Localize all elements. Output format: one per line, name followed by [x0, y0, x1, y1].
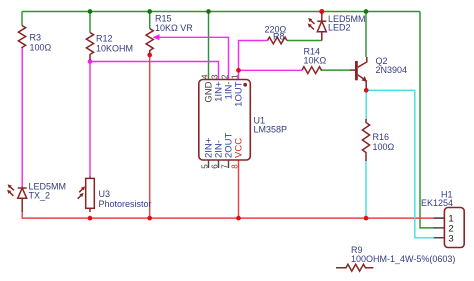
node R15 bottom — [147, 53, 152, 58]
photoresistor U3 — [78, 177, 95, 213]
resistor R12 — [86, 33, 93, 61]
node bus R16 — [364, 216, 369, 221]
svg-text:LED2: LED2 — [328, 23, 351, 33]
wire R3 to TX_2 — [21, 48, 23, 188]
svg-text:Photoresistor: Photoresistor — [99, 199, 152, 209]
transistor Q2 — [350, 57, 367, 89]
wire Q2 collector drop — [365, 12, 367, 58]
node bus VCC pin8 — [236, 216, 241, 221]
trimmer R15 — [146, 29, 153, 55]
node R15 top bus junction — [147, 9, 152, 14]
node R12 top bus junction — [88, 9, 93, 14]
svg-text:8: 8 — [230, 164, 239, 169]
wire U1 pin4 GND drop — [208, 12, 210, 80]
wire bottom bus — [22, 212, 444, 219]
op-amp U1 body — [199, 80, 251, 161]
wire H1 pin2 branch — [420, 12, 435, 228]
wire U1 pin1 to R14 left — [239, 69, 303, 71]
svg-text:10KOHM: 10KOHM — [96, 44, 133, 54]
svg-text:5: 5 — [200, 164, 209, 169]
wire R12 node to U1 pin3 — [90, 62, 219, 80]
svg-text:2N3904: 2N3904 — [376, 65, 408, 75]
resistor R9 — [336, 264, 373, 271]
wire Q2 emitter to H1 pin3 — [366, 90, 435, 238]
wire U1 pin1 stub — [238, 70, 240, 79]
svg-text:U3: U3 — [99, 189, 111, 199]
wire R16 bottom to bus — [365, 161, 367, 219]
svg-text:LM358P: LM358P — [254, 124, 288, 134]
svg-text:R3: R3 — [30, 33, 42, 43]
svg-text:6: 6 — [210, 164, 219, 169]
connector H1 body — [444, 208, 464, 248]
node R12 U3 junction — [88, 59, 93, 64]
svg-text:4: 4 — [200, 74, 209, 79]
wire VCC top bus — [22, 11, 420, 13]
wire U1 pin1 to R8 left — [239, 41, 268, 71]
node U1 pin1 junction — [236, 68, 241, 73]
svg-text:EK1254: EK1254 — [421, 198, 453, 208]
wire R15 top lead — [149, 12, 151, 29]
connector H1 pins — [434, 218, 445, 238]
wire U1 pin8 VCC drop — [238, 160, 240, 218]
wire R14 right to Q2 base — [321, 69, 351, 71]
svg-text:100Ω: 100Ω — [373, 142, 395, 152]
svg-text:VCC: VCC — [234, 138, 245, 158]
wire R15 wiper to U1 pin2 — [157, 37, 229, 79]
resistor R8 — [268, 37, 287, 44]
U1 pins 5 6 7 stubs — [209, 160, 229, 168]
node LED2 bus junction — [319, 9, 324, 14]
svg-text:1: 1 — [230, 74, 239, 79]
U1 pin1 mark — [243, 83, 247, 87]
svg-text:R12: R12 — [96, 34, 113, 44]
svg-text:10KΩ VR: 10KΩ VR — [155, 23, 193, 33]
resistor R16 — [362, 119, 369, 161]
wiper arrowhead R15 — [153, 34, 160, 40]
node bus U3 — [88, 216, 93, 221]
svg-text:10KΩ: 10KΩ — [304, 56, 327, 66]
wire R15 bottom drop — [149, 55, 151, 218]
wire R12 top lead — [89, 12, 91, 33]
LED LED2 — [309, 12, 326, 41]
resistor R14 — [302, 67, 321, 74]
U3 arrowheads — [81, 186, 85, 190]
svg-text:TX_2: TX_2 — [29, 191, 51, 201]
svg-text:3: 3 — [210, 74, 219, 79]
wire R12 to U3 — [89, 62, 91, 177]
svg-text:100OHM-1_4W-5%(0603): 100OHM-1_4W-5%(0603) — [351, 254, 455, 264]
svg-text:R8: R8 — [273, 32, 285, 42]
svg-text:1OUT: 1OUT — [234, 81, 245, 107]
TX_2 light arrowheads — [8, 184, 12, 188]
node bus R15 — [147, 216, 152, 221]
wire R8 right to LED2 — [287, 40, 322, 42]
svg-text:7: 7 — [220, 164, 229, 169]
svg-text:2: 2 — [220, 74, 229, 79]
svg-text:R16: R16 — [373, 132, 390, 142]
LED2 light arrowheads — [308, 18, 312, 22]
node U1 pin4 bus junction — [206, 9, 211, 14]
svg-text:3: 3 — [448, 234, 453, 245]
wire R3 top lead — [21, 12, 23, 26]
Q2 emitter arrowhead — [362, 76, 367, 82]
node Q2 collector bus junction — [364, 9, 369, 14]
resistor R3 — [18, 26, 25, 49]
LED TX_2 — [9, 186, 27, 212]
svg-text:R15: R15 — [155, 14, 172, 24]
svg-text:100Ω: 100Ω — [30, 43, 52, 53]
wire Q2 emitter to R16 — [365, 90, 367, 121]
node Q2 emitter junction — [364, 88, 369, 93]
